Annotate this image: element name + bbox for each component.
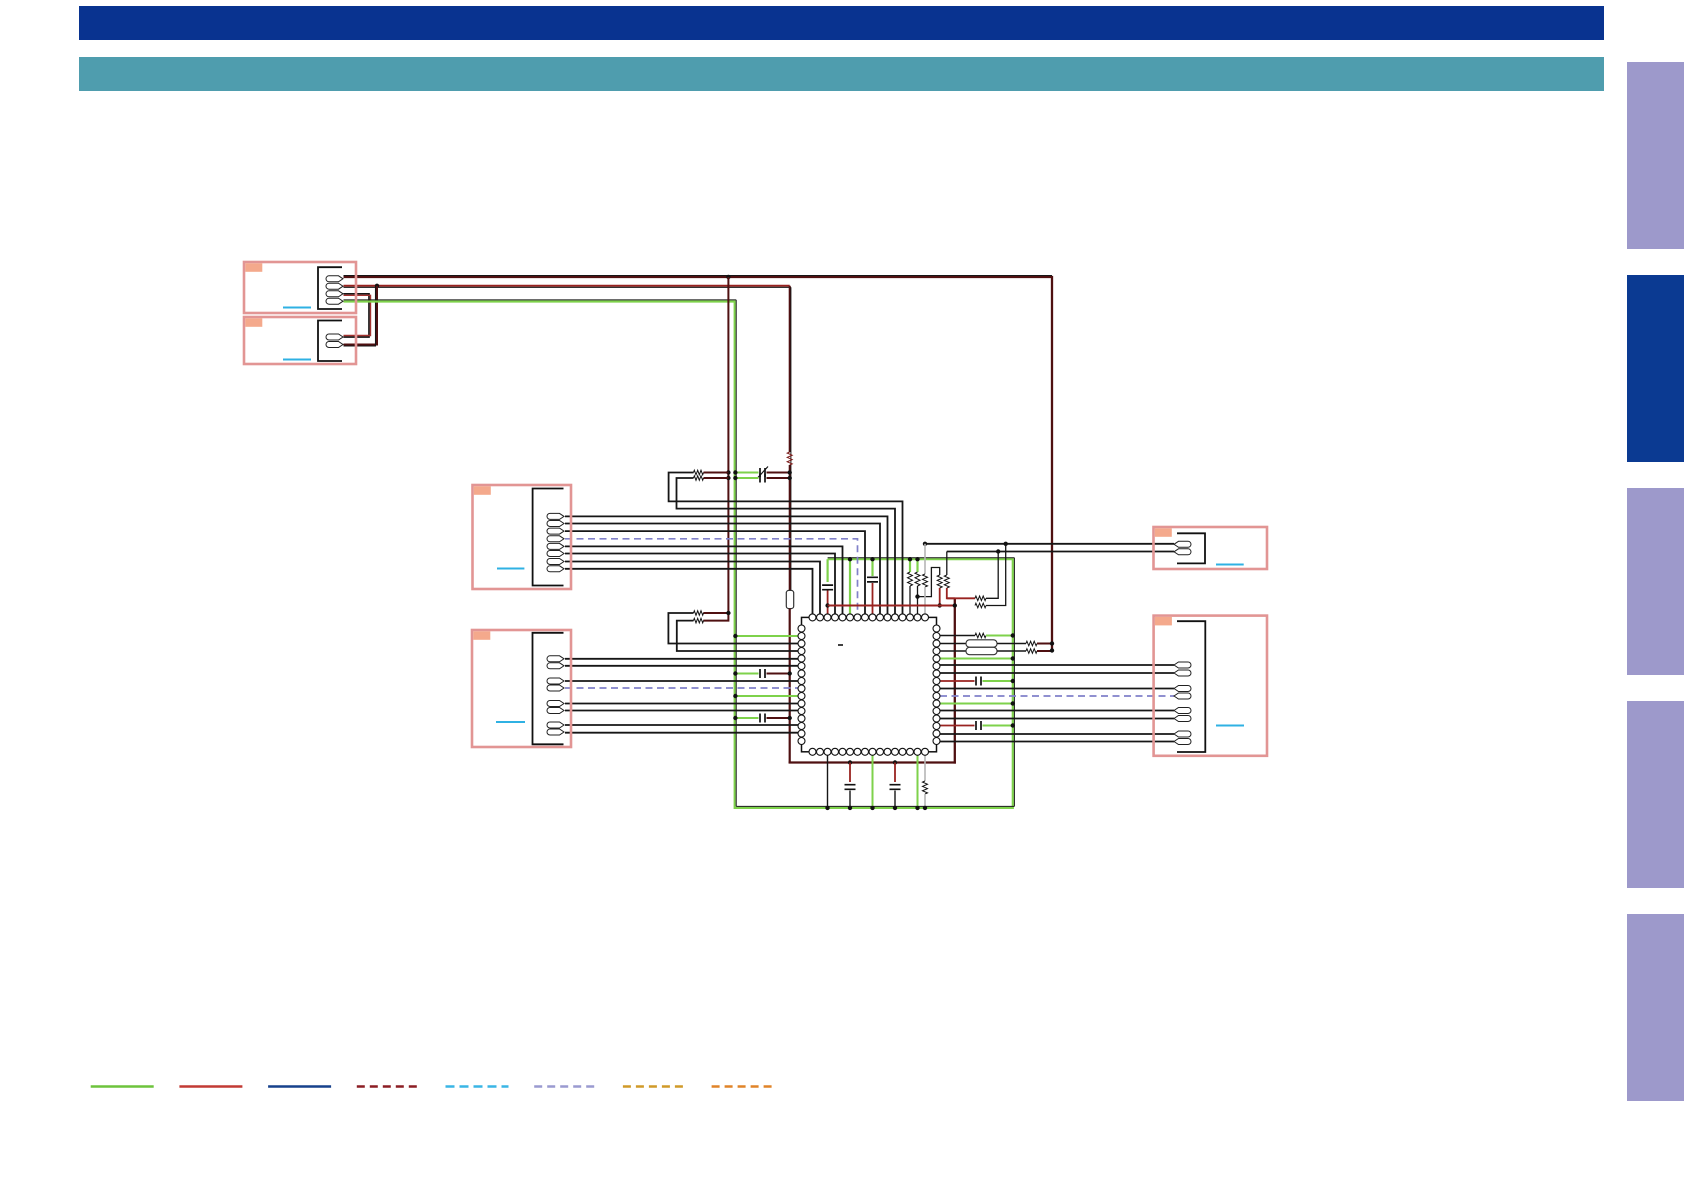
red lead below resistor x=946.8 xyxy=(947,588,955,598)
capacitor row2 green lead xyxy=(736,477,759,479)
green tail row635 xyxy=(986,635,1013,637)
wire J1.2 black companion xyxy=(344,286,791,288)
connector J5 pins xyxy=(1174,541,1191,547)
resistor R upper row2 xyxy=(694,476,704,481)
bottom column x=850 red + cap xyxy=(849,763,851,783)
legend line sample 1 xyxy=(91,1085,154,1088)
module box B5 corner tab xyxy=(1155,528,1172,537)
wire J1.3 to J2.1 black L xyxy=(344,294,370,337)
cap row y=673.5 left: green lead xyxy=(735,673,758,675)
header bar dark blue xyxy=(79,6,1604,40)
component pill row643 xyxy=(966,640,997,647)
cap row y=673.5 maroon lead xyxy=(767,673,790,675)
gray column lower lead xyxy=(924,587,926,614)
wire B3 staircase xyxy=(565,531,865,614)
legend line sample 3 xyxy=(268,1085,331,1088)
row y=643.5 : pill + resistor + maroon xyxy=(940,643,966,645)
link row651 xyxy=(997,650,1026,652)
sidebar tab 2 xyxy=(1627,275,1684,462)
wire vertical maroon x=790 mid segment xyxy=(789,465,791,590)
red lead below resistor x=939.7 xyxy=(939,588,941,606)
hyperlink underline B2 xyxy=(283,359,311,361)
wire black vertical above resistor x=946.8 xyxy=(946,552,948,576)
bottom gray lead xyxy=(924,794,926,808)
green top bus corner drop to cap column x=827.6 xyxy=(826,559,828,582)
module box B6 xyxy=(1154,616,1267,756)
wire green net black companion vertical xyxy=(735,300,737,807)
wire J4.4 purple dashed to IC xyxy=(565,687,798,689)
module box B3 corner tab xyxy=(474,486,491,495)
IC U1 bottom pins xyxy=(809,748,816,755)
junction dot maroon/vertical riser xyxy=(726,275,730,279)
legend line sample 4 xyxy=(357,1085,420,1088)
maroon bus below IC xyxy=(789,761,956,763)
wire J1.2 red horizontal xyxy=(344,285,790,287)
resistor R column x=917.5 xyxy=(915,572,920,586)
trimmer capacitor row1 xyxy=(760,468,765,477)
wire B3 staircase xyxy=(565,546,843,614)
row y=635.5: resistor then green to green riser xyxy=(940,635,975,637)
wire maroon riser x=728.4 xyxy=(703,277,728,621)
connector J4 pins xyxy=(547,656,564,662)
row y=598.3: resistor + black risers xyxy=(947,597,975,599)
connector bracket J6 xyxy=(1177,621,1205,752)
capacitor row2 maroon lead xyxy=(767,477,790,479)
wire IC to J6.1 xyxy=(940,664,1174,666)
red bus y=605.5 xyxy=(828,605,956,607)
component pill on x=790 xyxy=(786,590,793,608)
module box B2 xyxy=(244,317,356,364)
wire J4.1 to IC xyxy=(565,658,798,660)
wire IC to J6.8 xyxy=(940,741,1174,743)
gray column x=925 above IC xyxy=(924,544,926,574)
header bar teal xyxy=(79,57,1604,91)
capacitor C row681 xyxy=(976,677,981,686)
wire green to riser y=703.5 xyxy=(940,703,1013,705)
wire green net black companion right riser xyxy=(1013,558,1015,807)
capacitor C row718 xyxy=(760,714,765,723)
resistor R row598 xyxy=(975,596,986,601)
wire IC to J6.2 xyxy=(940,672,1174,674)
wire net to J5.2 xyxy=(947,551,1174,553)
bottom column x=895 black lead xyxy=(894,791,896,808)
wire J4.6 to IC xyxy=(565,710,798,712)
wire green to IC left pin y=636 xyxy=(735,635,798,637)
legend line sample 7 xyxy=(623,1085,686,1088)
stub maroon to upper trim resistor row xyxy=(703,612,728,614)
wire J4.7 to IC xyxy=(565,724,798,726)
module box B6 corner tab xyxy=(1155,617,1172,626)
green drop x=910 to resistor xyxy=(909,559,911,572)
green drop x=917.5 to resistor xyxy=(916,559,918,572)
resistor R gray column xyxy=(923,574,928,587)
resistor R row635 xyxy=(975,633,986,638)
cap row y=718 maroon lead xyxy=(767,717,790,719)
sidebar tab 3 xyxy=(1627,488,1684,675)
hyperlink underline B6 xyxy=(1216,725,1244,727)
wire J1.1 maroon horizontal top xyxy=(344,277,1053,651)
wire J2.2 black companion xyxy=(344,287,376,346)
wire vertical maroon x=790 upper segment xyxy=(789,286,791,452)
bottom column x=850 black lead xyxy=(849,791,851,808)
connector bracket J1 xyxy=(318,267,342,309)
cap row y=681 green tail xyxy=(983,680,1013,682)
wire B3 staircase xyxy=(565,569,813,614)
resistor R column x=910 xyxy=(908,572,913,586)
wire B3 staircase xyxy=(565,516,888,614)
IC U1 body xyxy=(802,617,937,751)
resistor R lower row2 xyxy=(694,618,704,623)
hyperlink underline B4 xyxy=(496,721,525,723)
bottom column x=827.5 black xyxy=(827,756,829,808)
trimmer row1 maroon lead xyxy=(767,472,790,474)
connector J2 pins xyxy=(326,334,343,340)
wire net to J5.1 xyxy=(925,543,1174,545)
bottom column x=872.5 green xyxy=(872,756,874,808)
wire J4.3 to IC xyxy=(565,680,798,682)
wire IC to J6.7 xyxy=(940,733,1174,735)
resistor R bottom gray xyxy=(923,781,928,794)
green drop x=850 to top pin xyxy=(849,559,851,614)
wire IC to J6.6 xyxy=(940,718,1174,720)
capacitor C bottom x=850 xyxy=(845,785,856,790)
connector bracket J4 xyxy=(533,633,564,745)
module box B4 xyxy=(472,630,571,747)
wire green to IC left pin y=696 xyxy=(735,695,798,697)
wire IC to J6.4 purple dashed xyxy=(940,695,1174,697)
junction dot red bus x=827.6 xyxy=(825,603,829,607)
capacitor C row673 xyxy=(760,669,765,678)
black S-link from x=917.5 to resistor x=939.7 xyxy=(918,568,940,597)
red lead below cap x=827.6 xyxy=(827,591,829,615)
red lead below cap x=872.5 xyxy=(872,583,874,614)
capacitor C row725 xyxy=(976,721,981,730)
capacitor C column x=872.5 xyxy=(867,577,878,582)
wire J4.2 to IC xyxy=(565,665,798,667)
wire B3 pin4 purple dashed staircase xyxy=(565,539,858,614)
module box B1 xyxy=(244,262,356,313)
stub maroon row2 to riser xyxy=(704,477,729,479)
junction dots trim rows on x=728.4 xyxy=(726,470,730,474)
wire black loop lower row1 xyxy=(668,613,798,644)
module box B5 xyxy=(1154,527,1268,569)
sidebar tab 1 xyxy=(1627,62,1684,249)
component pill row651 xyxy=(966,647,997,654)
cap row y=681 right: red lead xyxy=(940,680,975,682)
legend line sample 5 xyxy=(446,1085,509,1088)
bottom column x=917.5 green xyxy=(917,756,919,808)
connector J1 pins xyxy=(326,276,343,282)
wire black loop lower row2 xyxy=(677,621,798,651)
connector bracket J5 xyxy=(1177,533,1205,563)
module box B3 xyxy=(473,485,572,589)
IC U1 top pins xyxy=(809,614,816,621)
legend line sample 2 xyxy=(179,1085,242,1088)
maroon tail row643 xyxy=(1037,643,1052,645)
wire IC to J6.3 xyxy=(940,688,1174,690)
resistor R row643 xyxy=(1026,641,1037,646)
resistor R on x=790 xyxy=(787,452,792,465)
resistor R row651 xyxy=(1026,649,1037,654)
stub maroon row1 to riser xyxy=(704,472,729,474)
maroon tail row651 xyxy=(1037,650,1052,652)
bottom column x=925 gray + resistor xyxy=(924,756,926,782)
wire black loop upper row1 xyxy=(669,473,903,615)
bottom column x=895 red + cap xyxy=(894,763,896,783)
wire IC to J6.5 xyxy=(940,710,1174,712)
wire B3 staircase xyxy=(565,554,835,615)
IC U1 label dash xyxy=(838,644,843,646)
cap row y=725.5 right: red lead xyxy=(940,725,975,727)
black lead below resistor x=917.5 xyxy=(917,586,919,614)
hyperlink underline B3 xyxy=(497,568,524,570)
module box B1 corner tab xyxy=(245,263,262,272)
wire B3 staircase xyxy=(565,562,820,615)
hyperlink underline B1 xyxy=(283,307,311,309)
wire J1.1 black companion xyxy=(344,275,1053,277)
link row643 xyxy=(997,643,1026,645)
wire J4.8 to IC xyxy=(565,732,798,734)
capacitor C bottom x=895 xyxy=(890,785,901,790)
wire vertical black companion x=791 xyxy=(790,287,792,590)
row y=651 : pill + resistor + maroon xyxy=(940,650,966,652)
resistor R upper row1 xyxy=(694,470,704,475)
wire J1.3 red companion xyxy=(344,295,371,335)
connector J6 pins xyxy=(1174,662,1191,668)
wire vertical maroon x=790 lower segment xyxy=(789,609,791,764)
legend line sample 6 xyxy=(534,1085,597,1088)
connector bracket J3 xyxy=(533,489,564,586)
sidebar tab 4 xyxy=(1627,701,1684,888)
wire J4.5 to IC xyxy=(565,703,798,705)
wire green net main loop xyxy=(344,302,1013,808)
connector bracket J2 xyxy=(318,321,342,362)
capacitor C column x=827.6 xyxy=(822,585,833,590)
sidebar tab 5 xyxy=(1627,914,1684,1101)
wire B3 staircase xyxy=(565,524,880,615)
module box B4 corner tab xyxy=(473,631,490,640)
resistor R column x=946.8 xyxy=(944,575,949,588)
resistor R column x=939.7 xyxy=(937,575,942,588)
wire J2.2 maroon riser xyxy=(344,286,378,345)
maroon bus riser right x=954.8 xyxy=(954,598,956,763)
trimmer capacitor row1 green lead xyxy=(736,472,759,474)
wire green net black companion top xyxy=(344,299,737,301)
IC U1 left pins xyxy=(798,625,805,632)
module box B2 corner tab xyxy=(245,318,262,327)
hyperlink underline B5 xyxy=(1216,564,1244,566)
cap row y=725.5 green tail xyxy=(983,725,1013,727)
row y=605.5 resistor tail xyxy=(975,603,986,608)
black lead below resistor x=910 xyxy=(909,586,911,614)
junction dots maroon bus xyxy=(848,760,852,764)
green drop x=872.5 to cap xyxy=(871,559,873,576)
resistor R lower row1 xyxy=(694,611,704,616)
IC U1 right pins xyxy=(933,625,940,632)
cap row y=718 left: green lead xyxy=(735,717,758,719)
legend line sample 8 xyxy=(712,1085,775,1088)
wire green net black companion bottom bus xyxy=(736,805,1014,807)
connector J3 pins xyxy=(547,513,564,519)
wire black loop upper row2 xyxy=(677,478,896,614)
capacitor C row2 xyxy=(760,474,765,483)
wire green net black companion top bus xyxy=(828,557,1015,559)
black link row598 to riser xyxy=(986,552,998,599)
black link row605 to riser xyxy=(986,544,1006,606)
junction dot J2.2 riser xyxy=(375,284,379,288)
wire green to riser y=658.5 xyxy=(940,658,1013,660)
